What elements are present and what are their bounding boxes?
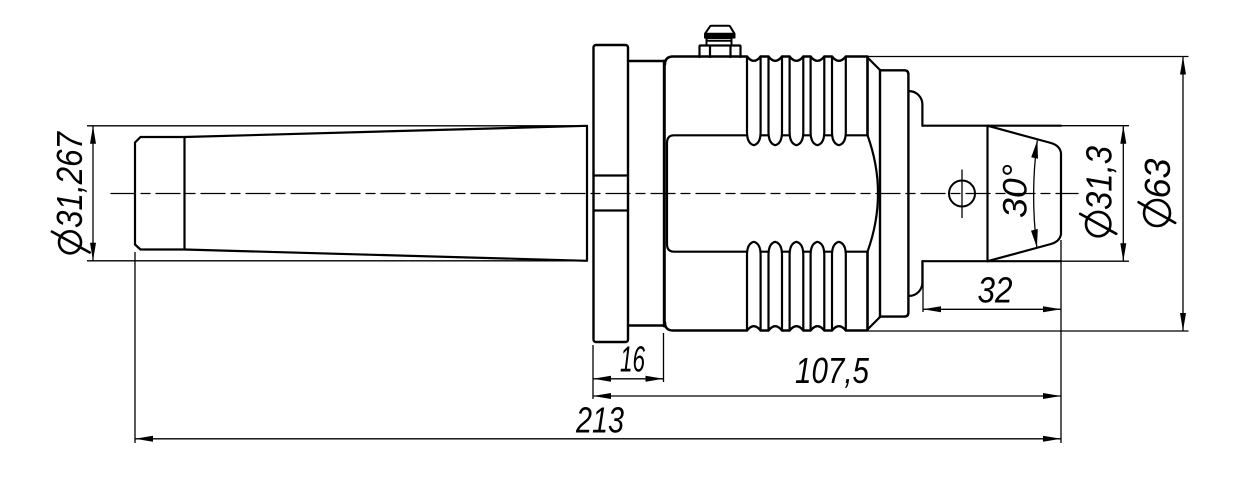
flange slot lines xyxy=(594,176,629,211)
svg-text:63: 63 xyxy=(1137,159,1178,199)
diameter symbol of 63 xyxy=(1144,200,1170,226)
arrows 32 xyxy=(923,306,941,312)
centerline (dash-dot axis) xyxy=(111,193,1078,195)
nose cylinder silhouette xyxy=(922,126,1061,262)
16 extension right xyxy=(663,333,665,382)
cross hole circle xyxy=(949,181,975,207)
body top edge with groove scallops xyxy=(665,57,868,65)
arrows dia31,3 xyxy=(1120,126,1126,144)
16 dimension line xyxy=(593,378,664,380)
waist left vertical line xyxy=(666,143,668,244)
nose taper 30 deg and front face xyxy=(988,126,1062,262)
taper shank cone xyxy=(185,126,588,261)
body left face (thick) xyxy=(663,61,666,326)
dia 31,3 dimension line xyxy=(1122,126,1124,262)
tang (morse taper flat end) xyxy=(135,137,185,250)
arrows 213 xyxy=(135,436,153,442)
grease nipple cap xyxy=(705,26,735,34)
waist contour (C-shape) top line xyxy=(667,135,868,143)
16 extension left xyxy=(592,345,594,399)
collar ring xyxy=(880,70,908,316)
grease nipple hex band xyxy=(705,34,736,38)
svg-text:107,5: 107,5 xyxy=(795,350,870,391)
svg-text:31,267: 31,267 xyxy=(49,130,90,228)
107,5 dimension line xyxy=(593,395,1061,397)
213 dimension line xyxy=(135,438,1061,440)
arrows 107,5 xyxy=(593,393,611,399)
cross hole vertical center mark xyxy=(961,170,963,218)
32 dimension line xyxy=(923,308,1061,310)
arrows 30 deg xyxy=(1031,140,1038,159)
32 extension left xyxy=(922,263,924,312)
svg-text:30°: 30° xyxy=(997,164,1035,218)
body bottom edge with groove scallops xyxy=(665,323,868,331)
svg-text:31,3: 31,3 xyxy=(1079,146,1120,210)
svg-text:32: 32 xyxy=(978,269,1013,310)
cap right edge xyxy=(879,70,881,317)
grease nipple collar xyxy=(707,38,732,46)
dia 63 dimension line xyxy=(1182,57,1184,332)
waist contour bottom line xyxy=(667,244,868,252)
dia 31,3 extension lines xyxy=(1061,126,1129,262)
nose cylinder/taper boundary xyxy=(986,126,988,262)
waist front big arc xyxy=(868,135,879,251)
grooves bottom (5 bullet cuts) xyxy=(747,242,846,331)
arrows dia31,267 xyxy=(90,126,96,144)
spacer ring xyxy=(628,61,664,326)
30 deg dimension arc xyxy=(1034,141,1038,248)
nose rear shoulder arcs xyxy=(909,91,922,296)
diameter symbol of 31,3 xyxy=(1086,212,1110,236)
dia 31,267 dimension line xyxy=(92,126,94,261)
cap face line xyxy=(866,58,869,330)
grease nipple base xyxy=(700,46,741,58)
flange disc xyxy=(594,45,629,342)
dia 63 extension lines xyxy=(868,57,1189,332)
213 extension left xyxy=(134,252,136,443)
svg-text:213: 213 xyxy=(575,400,624,441)
svg-text:16: 16 xyxy=(620,339,646,380)
dia 31,267 extension lines xyxy=(87,126,587,261)
arrows dia63 xyxy=(1180,57,1186,75)
right common extension line xyxy=(1060,240,1062,443)
arrows 16 xyxy=(593,376,611,382)
diameter symbol of 31,267 xyxy=(59,231,81,253)
grooves top (5 bullet cuts) xyxy=(747,57,846,146)
cap chamfers xyxy=(868,58,881,330)
